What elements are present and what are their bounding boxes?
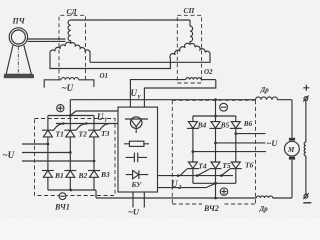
svg-text:БУ: БУ xyxy=(131,180,142,189)
svg-text:U: U xyxy=(171,179,178,189)
phase wire VCH2 bottom xyxy=(193,151,266,153)
motor M brush top xyxy=(289,138,295,141)
node bottom bus / VCH2 xyxy=(214,197,217,200)
smoothing choke Dr top xyxy=(256,97,278,100)
svg-text:В6: В6 xyxy=(243,119,253,128)
svg-text:U: U xyxy=(131,88,138,98)
SP rotor coil xyxy=(190,20,193,45)
control unit BU box xyxy=(118,107,158,192)
output winding O2 xyxy=(170,78,216,80)
excitation winding O1 xyxy=(44,78,94,88)
diode V1 xyxy=(42,171,54,191)
diode V2 xyxy=(64,171,76,191)
diode V3 xyxy=(88,171,100,191)
wire SD right phase to SP xyxy=(90,59,210,63)
wire U2 sense from BU xyxy=(158,183,216,187)
transistor stage inside BU xyxy=(125,117,148,133)
U2 label xyxy=(171,179,181,191)
phase wire 1 xyxy=(22,143,48,145)
wire U1 sense to BU xyxy=(70,111,118,116)
top DC bus (VCH1 plus to VCH2 minus) xyxy=(70,99,292,101)
SD three-phase stator winding xyxy=(50,42,71,53)
VCH2 gate bus from BU xyxy=(158,175,234,177)
smoothing choke Dr bottom xyxy=(256,196,272,198)
thyristor T4 xyxy=(187,162,199,183)
plus sign excitation supply xyxy=(303,85,309,91)
svg-text:М: М xyxy=(287,146,295,154)
SP three-phase stator winding xyxy=(170,43,190,58)
svg-text:В2: В2 xyxy=(78,171,88,180)
svg-text:~U: ~U xyxy=(62,83,74,93)
wire column continuations VCH2 xyxy=(193,134,236,162)
node rail junction xyxy=(69,114,72,117)
minus terminal symbol VCH2 xyxy=(220,103,228,111)
wire VCH1 minus output xyxy=(95,190,97,198)
PCH stand xyxy=(4,45,34,78)
motor M armature xyxy=(285,141,300,156)
svg-text:О1: О1 xyxy=(100,72,109,80)
selsyn SP dashed enclosure xyxy=(177,15,201,83)
diode inside BU xyxy=(126,170,149,179)
svg-text:ПЧ: ПЧ xyxy=(12,17,26,26)
gate lead T5 xyxy=(197,169,209,176)
node anode rail junction xyxy=(69,189,72,192)
phase wire VCH2 top xyxy=(236,133,266,135)
field winding zigzag xyxy=(304,142,306,156)
wire O2 left lead to BU xyxy=(130,80,170,108)
BU supply stubs xyxy=(133,192,144,208)
diode V6 xyxy=(230,116,242,134)
excitation top terminal xyxy=(303,96,308,102)
svg-text:Т4: Т4 xyxy=(198,161,207,170)
svg-text:Т5: Т5 xyxy=(222,161,231,170)
wire VCH1 plus rail riser / T2 column xyxy=(69,100,71,131)
resistor inside BU xyxy=(124,141,149,146)
phase wire VCH2 middle xyxy=(216,142,266,144)
wire O2 right lead to BU xyxy=(144,80,215,108)
excitation bottom terminal xyxy=(303,193,308,199)
VCH2 cathode rail xyxy=(193,182,236,184)
minus sign excitation supply xyxy=(303,202,311,204)
svg-text:~U: ~U xyxy=(128,207,140,217)
VCH1 cathode rail xyxy=(48,115,94,117)
machine PCH (drive motor) circle xyxy=(9,28,27,46)
svg-text:2: 2 xyxy=(177,185,181,191)
VCH2 dashed enclosure xyxy=(172,100,255,204)
capacitor inside BU xyxy=(126,153,147,163)
phase wire 3 xyxy=(22,160,94,162)
svg-text:Т6: Т6 xyxy=(245,160,254,169)
shaft coupling PCH-SD xyxy=(28,39,66,41)
diode V5 xyxy=(210,116,222,143)
U1 label xyxy=(97,112,107,124)
selsyn SD dashed enclosure xyxy=(59,15,86,80)
svg-text:Др: Др xyxy=(260,86,270,94)
thyristor T5 xyxy=(210,162,222,183)
gate lead T1 xyxy=(54,124,64,131)
plus terminal symbol VCH2 xyxy=(220,188,227,195)
wire VCH2 top riser xyxy=(215,100,217,116)
gate lead T4 xyxy=(180,169,187,176)
svg-text:Т1: Т1 xyxy=(56,129,64,138)
svg-text:Т3: Т3 xyxy=(101,129,110,138)
gate lead T3 xyxy=(100,124,110,131)
Uy label xyxy=(131,88,141,100)
svg-text:Т2: Т2 xyxy=(79,129,88,138)
node gate bus dots xyxy=(62,122,65,125)
svg-text:1: 1 xyxy=(104,118,107,124)
svg-text:О2: О2 xyxy=(204,68,213,76)
svg-text:U: U xyxy=(97,112,104,122)
thyristor T1 xyxy=(42,116,54,171)
wire rotor link top bus xyxy=(71,19,190,21)
VCH1 anode rail xyxy=(48,189,96,191)
PCH axis centerline xyxy=(17,47,19,75)
VCH1 gate bus xyxy=(56,123,118,125)
wire VCH2 plus output xyxy=(215,183,217,198)
thyristor T2 xyxy=(64,130,76,170)
VCH2 top rail xyxy=(193,115,236,117)
plus terminal symbol VCH1 xyxy=(57,105,64,112)
bottom DC bus xyxy=(96,197,292,199)
gate lead T6 xyxy=(221,169,229,176)
minus terminal symbol VCH1 xyxy=(59,193,66,200)
svg-text:~U: ~U xyxy=(3,150,15,160)
diode V4 xyxy=(187,116,199,152)
excitation field winding wire xyxy=(305,101,307,143)
motor M brush bottom xyxy=(289,157,295,160)
svg-text:В3: В3 xyxy=(100,170,110,179)
node junction top bus / VCH2 xyxy=(214,98,217,101)
svg-text:ВЧ2: ВЧ2 xyxy=(203,204,219,213)
svg-text:СП: СП xyxy=(184,6,196,15)
wire SD left phase to SP xyxy=(50,54,170,69)
thyristor T3 xyxy=(88,116,100,171)
svg-text:Др: Др xyxy=(259,205,269,213)
SD rotor coil xyxy=(68,20,71,44)
svg-text:ВЧ1: ВЧ1 xyxy=(54,203,70,212)
svg-text:СД: СД xyxy=(67,7,78,16)
gate lead T2 xyxy=(76,124,86,131)
svg-text:В5: В5 xyxy=(220,120,230,129)
svg-text:В1: В1 xyxy=(54,171,64,180)
VCH1 dashed enclosure xyxy=(35,119,116,196)
svg-text:В4: В4 xyxy=(197,120,207,129)
thyristor T6 xyxy=(230,162,242,183)
svg-text:~U: ~U xyxy=(267,138,279,148)
phase wire 2 xyxy=(22,152,70,154)
wire motor armature loop right xyxy=(291,100,293,198)
